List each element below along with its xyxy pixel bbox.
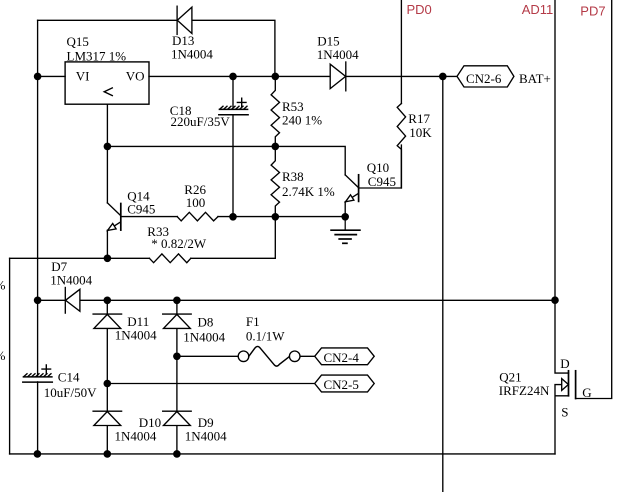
svg-text:10K: 10K	[409, 125, 432, 140]
node Q14 emitter/R33	[104, 254, 112, 262]
svg-text:2.74K 1%: 2.74K 1%	[282, 184, 335, 199]
resistor R17 vertical zigzag	[397, 104, 405, 189]
wire Q21 drain lead	[555, 300, 569, 373]
wire C18 column bottom	[232, 115, 234, 217]
svg-text:240 1%: 240 1%	[282, 112, 322, 127]
capacitor C14 10uF/50V (polarized, hatched plate)	[23, 365, 53, 382]
wire R17 bottom lead and Q10 base wire	[359, 145, 402, 188]
wire mid horizontal ADJ node to Q10 collector corner	[107, 146, 345, 175]
svg-text:C945: C945	[127, 202, 155, 217]
wire PD0 net vertical x=401.4 top	[400, 0, 402, 104]
resistor R38 vertical zigzag	[271, 146, 279, 216]
node R53/R38	[272, 143, 280, 151]
wire bottom bus y=453.9	[10, 453, 555, 455]
LM317 adjust arrow glyph	[104, 88, 112, 96]
wire fuse row F1 to CN2-4 tag	[300, 355, 315, 357]
transistor Q10 C945 (NPN, base bar, facing left)	[345, 175, 358, 217]
wire BAT+ vertical x=442.8 to bottom edge	[442, 76, 444, 492]
svg-text:CN2-5: CN2-5	[324, 377, 359, 392]
svg-text:1N4004: 1N4004	[50, 272, 92, 287]
svg-text:C945: C945	[368, 174, 396, 189]
node D9 bottom	[173, 450, 181, 458]
wire left vertical rail x=37.6 (interrupted by C14)	[37, 20, 39, 376]
wire base row Q14 to ground node (under R26)	[121, 216, 345, 218]
diode D10 (cathode bar top, triangle pointing up)	[93, 411, 122, 425]
node R53 top	[272, 73, 280, 81]
resistor R33 horizontal zigzag	[149, 254, 190, 263]
transistor Q14 C945 (NPN, base bar, facing left)	[107, 146, 120, 258]
node R38 bottom	[272, 213, 280, 221]
svg-text:1%: 1%	[0, 348, 6, 363]
diode D9 (cathode bar top, triangle pointing up)	[163, 411, 192, 425]
wire far left rail x=9.6	[9, 258, 11, 454]
connector tag CN2-5	[315, 375, 375, 392]
transistor Q21 IRFZ24N MOSFET body	[562, 371, 576, 399]
connector tag CN2-6	[457, 66, 514, 87]
op-amp regulator U-box Q15 LM317 outline	[65, 62, 149, 104]
connector tag CN2-4	[315, 348, 375, 365]
wire ADJ pin down to mid node	[106, 104, 108, 146]
node C18 top	[229, 73, 237, 81]
svg-text:C14: C14	[58, 369, 80, 384]
svg-text:D8: D8	[198, 315, 214, 330]
svg-text:100: 100	[186, 195, 206, 210]
svg-text:D: D	[560, 356, 569, 371]
svg-text:R38: R38	[282, 169, 304, 184]
wire AD11 net vertical x=555	[554, 0, 556, 300]
node D8/D9 fuse tap	[173, 353, 181, 361]
wire CN2-5 row y=383.5	[107, 383, 314, 385]
wire C18 column top	[232, 76, 234, 106]
svg-text:1N4004: 1N4004	[183, 330, 225, 345]
wire top from left corner to D13 cathode	[38, 19, 177, 21]
node ADJ	[104, 143, 112, 151]
resistor R26 horizontal zigzag	[177, 212, 218, 221]
svg-text:S: S	[561, 404, 568, 419]
ground symbol (below Q10 emitter)	[331, 217, 360, 244]
svg-text:PD0: PD0	[407, 2, 432, 17]
wire Q21 source+body lead	[555, 385, 569, 454]
svg-text:0.1/1W: 0.1/1W	[246, 329, 285, 344]
resistor R53 vertical zigzag	[271, 76, 279, 146]
svg-text:Q15: Q15	[67, 34, 89, 49]
wire D11/D10 column x=107.3	[106, 300, 108, 454]
svg-text:AD11: AD11	[522, 2, 554, 17]
svg-text:CN2-6: CN2-6	[466, 71, 502, 86]
svg-text:VO: VO	[126, 68, 145, 83]
svg-text:BAT+: BAT+	[519, 71, 551, 86]
wire left vertical rail below C14	[37, 382, 39, 454]
node D10 bottom	[104, 450, 112, 458]
svg-text:VI: VI	[76, 68, 90, 83]
svg-text:R17: R17	[408, 111, 430, 126]
node drain/AD11	[551, 296, 559, 304]
wire D7 row y=300.3 left	[38, 299, 66, 301]
svg-text:IRFZ24N: IRFZ24N	[499, 383, 550, 398]
svg-text:G: G	[582, 385, 591, 400]
node D7 left	[34, 297, 42, 305]
svg-text:1N4004: 1N4004	[115, 327, 157, 342]
node D8 top	[173, 297, 181, 305]
wire main bus VO to D15 anode	[149, 75, 330, 77]
wire D7 row y=300.3 right to AD11 drain node	[80, 299, 555, 301]
svg-text:F1: F1	[246, 314, 260, 329]
svg-text:1N4004: 1N4004	[185, 428, 227, 443]
node VI left rail	[34, 73, 42, 81]
diode D15 (anode left, triangle pointing right, cathode bar right)	[330, 62, 346, 91]
wire R33 bus row y=258.3	[10, 217, 276, 258]
capacitor C18 220uF/35V (polarized, hatched plate)	[219, 98, 248, 115]
node bottom bus left	[34, 450, 42, 458]
svg-text:1N4004: 1N4004	[171, 47, 213, 62]
svg-text:1N4004: 1N4004	[317, 47, 359, 62]
svg-text:220uF/35V: 220uF/35V	[171, 114, 231, 129]
svg-text:PD7: PD7	[580, 3, 605, 18]
diode D8 (cathode bar top, triangle pointing up)	[163, 314, 192, 328]
diode D11 (cathode bar top, triangle pointing up)	[93, 314, 122, 328]
svg-text:LM317 1%: LM317 1%	[67, 48, 127, 63]
diode D13 (cathode bar left, triangle pointing left)	[177, 6, 192, 34]
svg-text:1%: 1%	[0, 277, 6, 292]
node D11/D10 CN2-5 tap	[104, 380, 112, 388]
wire PD7 net vertical x=611.7 with gate connection	[576, 0, 612, 399]
svg-text:10uF/50V: 10uF/50V	[44, 385, 97, 400]
svg-text:CN2-4: CN2-4	[324, 350, 360, 365]
wire fuse row y=356.3 from D8 node to F1	[177, 355, 238, 357]
svg-text:Q10: Q10	[367, 160, 389, 175]
diode D7 (cathode bar left, triangle pointing left)	[65, 288, 80, 314]
wire D8/D9 column x=176.9	[176, 300, 178, 454]
node D11 top	[104, 297, 112, 305]
wire main bus D15 cathode to CN2-6 stub	[346, 75, 457, 77]
node Q10 emitter/gnd	[341, 213, 349, 221]
node BAT+	[439, 73, 447, 81]
wire VI pin	[38, 75, 66, 77]
svg-text:* 0.82/2W: * 0.82/2W	[151, 236, 207, 251]
node R26/C18	[229, 213, 237, 221]
svg-text:1N4004: 1N4004	[115, 428, 157, 443]
fuse F1 0.1/1W	[238, 346, 300, 366]
wire top from D13 anode to R53 column corner	[192, 20, 275, 73]
